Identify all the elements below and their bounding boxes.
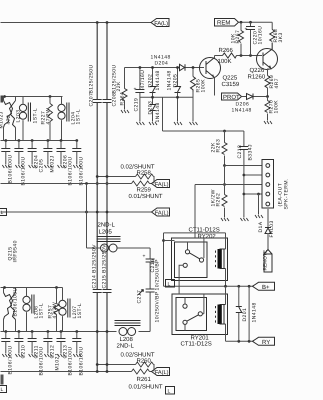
bottom caps row: C209b bbox=[1, 330, 13, 374]
node y285.8 x238.3 bbox=[237, 285, 240, 288]
capacitor C217 10/250U/BP bbox=[137, 289, 161, 323]
svg-text:D205: D205 bbox=[173, 74, 179, 88]
svg-text:L: L bbox=[1, 210, 4, 216]
relay RY202 coil bbox=[215, 251, 217, 268]
node C218 y193.5 bbox=[243, 193, 246, 196]
bottom caps row: C213b bbox=[72, 330, 84, 375]
node x224 y184 bbox=[223, 183, 226, 186]
flag REM bbox=[215, 19, 239, 27]
resistor R266 100K bbox=[218, 47, 237, 65]
svg-text:10/250V/BP: 10/250V/BP bbox=[155, 291, 161, 322]
svg-text:C208: C208 bbox=[112, 93, 118, 107]
relay RY202 CT11-D12S bbox=[172, 227, 228, 287]
svg-text:L205: L205 bbox=[99, 229, 113, 236]
wire coil feed y232.4 bbox=[164, 232, 226, 234]
svg-text:+: + bbox=[245, 27, 248, 33]
svg-text:1ST-L: 1ST-L bbox=[33, 108, 39, 124]
svg-text:47/2W: 47/2W bbox=[46, 108, 52, 125]
svg-text:L208: L208 bbox=[120, 336, 134, 343]
svg-text:C210: C210 bbox=[21, 345, 27, 359]
svg-text:D202: D202 bbox=[148, 74, 154, 88]
node rail y96 x49.5 bbox=[49, 95, 52, 98]
svg-text:L: L bbox=[1, 387, 4, 393]
node rail y287 x4 bbox=[3, 286, 6, 289]
wire jumper x248.6 bbox=[248, 286, 250, 341]
svg-text:47/2W: 47/2W bbox=[52, 302, 58, 319]
svg-text:C3159: C3159 bbox=[222, 81, 240, 88]
svg-text:C215 B125/250V: C215 B125/250V bbox=[102, 244, 108, 289]
wire y372 to flag bbox=[150, 371, 152, 373]
svg-text:RY201: RY201 bbox=[191, 334, 210, 341]
svg-text:L203: L203 bbox=[16, 110, 22, 123]
transistor Q225 C3159 bbox=[200, 56, 240, 96]
wire pin2 y174.5 bbox=[244, 174, 262, 176]
resistor R261 0.01/SHUNT bbox=[129, 369, 163, 391]
wire vertical x106.5 (C208 branch) bbox=[106, 23, 108, 372]
resistor R268 3K3 bbox=[270, 22, 284, 49]
svg-text:SPK-TERM.: SPK-TERM. bbox=[284, 178, 290, 209]
wire top rail y22 bbox=[1, 22, 152, 24]
svg-text:1N4148: 1N4148 bbox=[155, 102, 161, 122]
wire branch x86 down to L205 bbox=[86, 184, 88, 249]
svg-text:FA(L): FA(L) bbox=[155, 210, 169, 217]
relay RY201 upper terminal bbox=[184, 298, 186, 305]
svg-text:1N4148: 1N4148 bbox=[252, 302, 258, 322]
capacitor C207 bbox=[89, 64, 102, 106]
node base wire R265 bbox=[192, 66, 195, 69]
node y211.5 x96.7 bbox=[96, 211, 99, 214]
wire pin3 drop x194.5 bbox=[194, 185, 196, 239]
flag B+ bbox=[253, 282, 275, 291]
label (L) near relay bottom bbox=[166, 387, 175, 395]
resistor R262 1K/2W bbox=[211, 166, 230, 222]
bottom caps row: C212 bbox=[43, 330, 60, 370]
svg-text:CT11-D12S: CT11-D12S bbox=[181, 341, 212, 348]
resistor bottom-left diag pair bbox=[4, 288, 16, 332]
resistor R259 0.01/SHUNT bbox=[129, 181, 163, 200]
relay RY201 coil bbox=[215, 306, 217, 323]
svg-text:3K3: 3K3 bbox=[278, 32, 284, 42]
inductor L203 1ST-L bbox=[16, 97, 39, 141]
resistor R270 100K bbox=[264, 97, 280, 125]
svg-text:B106/100U: B106/100U bbox=[13, 287, 19, 316]
svg-text:B106/100U: B106/100U bbox=[8, 345, 14, 374]
svg-text:Q226: Q226 bbox=[250, 67, 265, 74]
resistor R264 22K bbox=[116, 68, 129, 114]
wire shunt rail y184 bbox=[1, 183, 132, 185]
node prot junction bbox=[266, 95, 269, 98]
resistor R227 47/2W bbox=[41, 97, 53, 141]
wire REM y21.75 bbox=[239, 21, 273, 23]
svg-text:10/16U: 10/16U bbox=[258, 26, 264, 45]
flag FA(L) top bbox=[151, 19, 169, 28]
ground stub x256 bbox=[255, 194, 263, 218]
node top wire x139.4 bbox=[139, 66, 142, 69]
bottom caps row: C213 bbox=[57, 330, 74, 375]
svg-text:B106/100U: B106/100U bbox=[79, 156, 85, 185]
wire pin1 y165 bbox=[225, 165, 262, 167]
svg-text:47/16U: 47/16U bbox=[140, 70, 146, 89]
svg-text:100K: 100K bbox=[218, 58, 232, 65]
svg-text:D1A: D1A bbox=[258, 221, 264, 232]
top caps row: C203 bbox=[14, 139, 26, 185]
node y285.8 x225 bbox=[224, 285, 227, 288]
subnet tie wire y96.8 bbox=[140, 96, 193, 98]
wire rail y211.5 bbox=[1, 211, 152, 213]
relay RY202 armature bbox=[190, 253, 200, 259]
wire RY202 NO to RY201 bbox=[178, 281, 180, 295]
relay RY202 outer box bbox=[172, 238, 228, 281]
node y183 x96.7 bbox=[96, 182, 99, 185]
svg-text:C205: C205 bbox=[39, 159, 45, 173]
text Q215 IRF9540 bbox=[8, 240, 19, 262]
bottom rail y331 long bbox=[1, 331, 151, 333]
node REM wire x250 bbox=[249, 21, 252, 24]
node y364 x96.7 bbox=[96, 363, 99, 366]
relay RY202 switch box bbox=[175, 242, 208, 278]
node base wire x250 bbox=[249, 54, 252, 57]
wire R258 to junction bbox=[153, 177, 156, 184]
wire bottom shunt rail y372 bbox=[1, 371, 132, 373]
capacitor C219 47/16U bbox=[134, 68, 147, 126]
transistor Q226 R1260 bbox=[248, 43, 278, 81]
resistor R258 0.02/SHUNT bbox=[121, 164, 155, 180]
node y340.8 x248.6 bbox=[248, 340, 251, 343]
top caps row: C209 bbox=[72, 139, 84, 185]
bottom caps row: C210 bbox=[14, 330, 26, 358]
node x163 y240 bbox=[162, 239, 165, 242]
diode D201 1N4148 bbox=[236, 286, 258, 341]
svg-text:FA(L): FA(L) bbox=[154, 20, 168, 27]
subnet top wire y67 bbox=[125, 67, 205, 69]
node y331 x106.5 bbox=[106, 330, 109, 333]
diode D205 1N4148 bbox=[167, 68, 183, 126]
resistor R263 22K bbox=[211, 131, 228, 166]
wire connector pin5 drop (gray) bbox=[267, 208, 269, 228]
node y372 x96.7 bbox=[96, 370, 99, 373]
inductor L207 1ST-L bbox=[59, 288, 83, 332]
resistor R269 4R7 bbox=[265, 75, 280, 97]
node on top rail x106.5 bbox=[106, 21, 109, 24]
wire R260 to junction bbox=[153, 365, 156, 372]
svg-text:+: + bbox=[134, 87, 137, 93]
svg-text:FA(L): FA(L) bbox=[155, 181, 169, 188]
node y176 x96.7 bbox=[96, 175, 99, 178]
capacitor C215 bbox=[102, 244, 112, 293]
resistor R260 0.02/SHUNT bbox=[121, 352, 155, 368]
top caps row: C205 M102J bbox=[43, 139, 55, 172]
relay RY202 common terminal bbox=[187, 242, 189, 250]
svg-text:10/250U/BP: 10/250U/BP bbox=[155, 259, 161, 291]
node tie x177 bbox=[176, 96, 179, 99]
capacitor C208 bbox=[103, 64, 118, 106]
wire vertical x149.6 L205 out down to rail y331 bbox=[149, 248, 151, 332]
svg-text:C218: C218 bbox=[237, 145, 243, 159]
diode D202 bbox=[148, 68, 162, 93]
left edge fragment top bbox=[1, 96, 4, 103]
svg-text:C207: C207 bbox=[89, 93, 95, 107]
node tie x152 bbox=[151, 96, 154, 99]
node y130.5 x224 bbox=[223, 130, 226, 133]
svg-text:L: L bbox=[168, 282, 171, 288]
svg-text:D201: D201 bbox=[242, 308, 248, 322]
svg-text:100K: 100K bbox=[274, 100, 280, 114]
subnet lower tie wire y96 bbox=[162, 97, 164, 131]
svg-text:1N4148: 1N4148 bbox=[232, 108, 252, 114]
svg-text:RY: RY bbox=[262, 339, 270, 346]
svg-text:C219: C219 bbox=[134, 98, 140, 112]
relay RY201 armature bbox=[183, 320, 187, 324]
node y183 x106.5 bbox=[106, 182, 109, 185]
svg-text:M102J: M102J bbox=[50, 155, 56, 172]
svg-text:Q225: Q225 bbox=[223, 75, 238, 82]
diode D204 1N4148 (series in wire) bbox=[151, 55, 186, 71]
svg-text:M102J: M102J bbox=[55, 353, 61, 370]
relay RY201 switch box bbox=[176, 298, 207, 331]
bottom-left cell rail y287 bbox=[1, 287, 63, 289]
svg-text:R259: R259 bbox=[137, 187, 152, 194]
svg-text:B334J: B334J bbox=[248, 144, 254, 160]
svg-text:22K: 22K bbox=[116, 81, 122, 91]
svg-text:1ST-L: 1ST-L bbox=[76, 109, 82, 125]
node C218 y174.5 bbox=[243, 174, 246, 177]
flag REMOTE (vertical) bbox=[263, 250, 273, 273]
wire stub into switch bbox=[164, 240, 175, 242]
bottom caps row: C211 bbox=[28, 330, 45, 375]
inductor L204 1ST-L bbox=[58, 97, 82, 141]
svg-text:4R7: 4R7 bbox=[274, 78, 280, 89]
svg-text:0.01/SHUNT: 0.01/SHUNT bbox=[129, 384, 163, 391]
left edge fragment bottom bbox=[1, 375, 4, 385]
node top wire x152 bbox=[151, 66, 154, 69]
node y287 x61 bbox=[55, 286, 58, 289]
node y364 x106.5 bbox=[106, 363, 109, 366]
svg-text:L: L bbox=[168, 389, 171, 395]
node y340.8 x238.3 bbox=[237, 340, 240, 343]
svg-text:IRF9540: IRF9540 bbox=[13, 240, 19, 262]
node y176 x106.5 bbox=[106, 175, 109, 178]
svg-text:R261: R261 bbox=[137, 376, 152, 383]
wire bottom shunt rail y364 bbox=[97, 364, 135, 366]
flag FA(L) mid1 bbox=[152, 180, 170, 189]
node x224 y165 bbox=[223, 164, 226, 167]
label (L) left edge bottom bbox=[0, 386, 7, 394]
svg-text:FRL03: FRL03 bbox=[269, 220, 275, 237]
top caps row: C206 bbox=[57, 139, 74, 185]
top-left cell: rail y96 bbox=[1, 96, 63, 98]
svg-text:100K: 100K bbox=[201, 79, 207, 93]
svg-text:B106/100U: B106/100U bbox=[21, 156, 27, 185]
svg-text:C214 B125/250V: C214 B125/250V bbox=[92, 244, 98, 289]
capacitor C216 10/250U/BP bbox=[143, 254, 161, 291]
svg-text:B125/250U: B125/250U bbox=[89, 64, 95, 93]
inductor L205 2ND-L bbox=[87, 222, 151, 253]
svg-text:FA(L): FA(L) bbox=[155, 369, 169, 376]
svg-text:R263: R263 bbox=[216, 139, 222, 153]
wire pin3 y184 bbox=[195, 184, 262, 186]
node y372 x106.5 bbox=[106, 370, 109, 373]
svg-text:0.01/SHUNT: 0.01/SHUNT bbox=[129, 193, 163, 200]
inductor L208 2ND-L bbox=[115, 321, 141, 350]
relay RY202 NO contact bbox=[183, 263, 187, 267]
svg-text:REM: REM bbox=[217, 20, 230, 27]
svg-text:D203: D203 bbox=[148, 101, 154, 115]
wire pin4 y193.5 bbox=[244, 193, 262, 195]
node y331 x96.7 bbox=[96, 330, 99, 333]
relay RY201 outer box bbox=[172, 294, 228, 335]
svg-text:1ST-L: 1ST-L bbox=[77, 303, 83, 319]
svg-text:PROT: PROT bbox=[223, 94, 240, 101]
top caps row: C204 bbox=[28, 139, 45, 172]
svg-text:2ND-L: 2ND-L bbox=[117, 343, 135, 350]
node on top rail x96.7 bbox=[96, 21, 99, 24]
svg-text:0.02/SHUNT: 0.02/SHUNT bbox=[121, 352, 155, 359]
node pin4 x256 bbox=[257, 193, 260, 196]
wire Q225 collector to Q226 base y55 bbox=[215, 55, 263, 57]
top-left cell: bottom rail y140 bbox=[1, 140, 78, 142]
svg-text:1N4148: 1N4148 bbox=[155, 70, 161, 90]
label (L) left edge mid bbox=[0, 209, 7, 217]
relay RY201 CT11-D12S bbox=[172, 286, 228, 347]
resistor R267 10K bbox=[231, 22, 244, 55]
resistor R257 47/2W bbox=[48, 288, 60, 332]
node y211.5 x106.5 bbox=[106, 211, 109, 214]
svg-text:REMOTE: REMOTE bbox=[263, 250, 269, 271]
wire pin3 drop x194.5 bbox=[194, 185, 196, 233]
svg-text:R262: R262 bbox=[216, 193, 222, 207]
node y211.5 x86 bbox=[85, 211, 88, 214]
svg-text:B+: B+ bbox=[262, 284, 270, 291]
node rail y96 x4 bbox=[3, 95, 6, 98]
svg-text:R258: R258 bbox=[137, 170, 152, 177]
svg-text:RY202: RY202 bbox=[198, 233, 217, 240]
node top wire x177 bbox=[176, 66, 179, 69]
wire vertical x96.7 (C207 branch) bbox=[96, 23, 98, 372]
svg-text:R260: R260 bbox=[137, 358, 152, 365]
svg-text:D204: D204 bbox=[155, 61, 169, 67]
wire shunt rail y176 bbox=[97, 176, 135, 178]
svg-text:1ST-L: 1ST-L bbox=[39, 303, 45, 319]
node REM wire x240.5 bbox=[240, 21, 243, 24]
wire rail y130.5 bbox=[163, 130, 244, 132]
svg-text:2ND-L: 2ND-L bbox=[98, 222, 116, 229]
svg-text:R266: R266 bbox=[219, 47, 234, 54]
flag FA(L) bottom bbox=[152, 368, 170, 377]
flag PROT bbox=[222, 93, 242, 101]
wire y184 to flag bbox=[150, 183, 152, 185]
svg-text:R267: R267 bbox=[235, 30, 241, 44]
svg-text:C217: C217 bbox=[137, 290, 143, 304]
diode D206 1N4148 bbox=[232, 94, 254, 114]
wire B+ rail y285.8 bbox=[164, 285, 253, 287]
resistor R265 100K bbox=[190, 68, 207, 126]
svg-text:+: + bbox=[143, 254, 146, 260]
connector SPA-OUT box bbox=[262, 160, 290, 210]
capacitor C214 bbox=[92, 244, 102, 293]
svg-text:0.02/SHUNT: 0.02/SHUNT bbox=[121, 164, 155, 171]
top caps row: C202 bbox=[1, 139, 13, 183]
wire RY rail y340.8 bbox=[226, 340, 253, 342]
label (L) near relay top bbox=[166, 280, 175, 288]
node y285.8 x248.6 bbox=[248, 285, 251, 288]
wire left branch x163 bbox=[163, 233, 165, 286]
svg-text:B106/100U: B106/100U bbox=[68, 156, 74, 185]
capacitor C218 B334J bbox=[237, 131, 254, 221]
node base wire x240.5 bbox=[240, 54, 243, 57]
svg-text:R264: R264 bbox=[120, 92, 126, 106]
svg-text:R1260: R1260 bbox=[248, 74, 266, 81]
relay RY202 NC terminal bbox=[203, 238, 205, 260]
capacitor C220 10/16U bbox=[245, 22, 264, 55]
inductor L206 1ST-L bbox=[23, 288, 45, 332]
resistor R225/R226 X pair (diagonal) bbox=[0, 97, 16, 141]
diode D1A FRL03 bbox=[258, 220, 275, 249]
flag RY bbox=[253, 337, 275, 346]
wire PROT y96 bbox=[242, 96, 268, 98]
svg-text:B106/100U: B106/100U bbox=[8, 154, 14, 183]
flag FA(L) mid2 bbox=[152, 208, 170, 217]
diode D203 1N4148 bbox=[148, 93, 162, 126]
node y183 x86 bbox=[85, 182, 88, 185]
